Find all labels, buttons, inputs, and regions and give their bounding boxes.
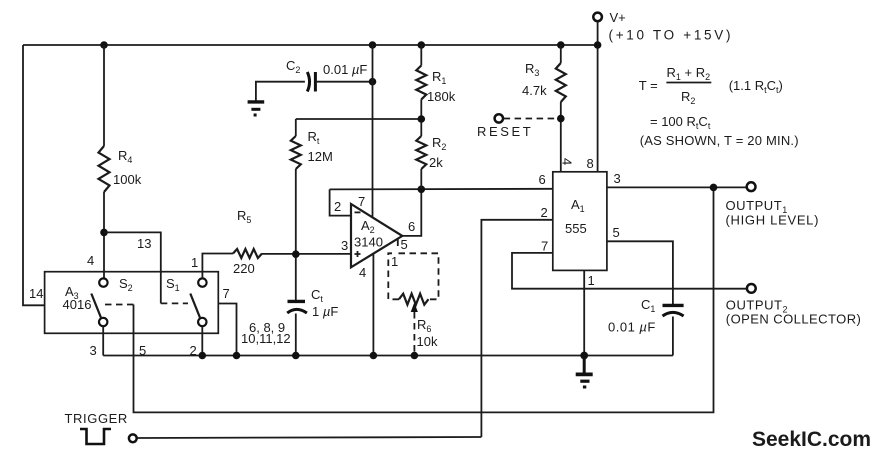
resistor R5 — [233, 249, 262, 258]
node op-amp output junction — [418, 186, 426, 194]
terminal OUTPUT2 — [747, 284, 756, 293]
svg-text:180k: 180k — [427, 89, 456, 104]
wire Rt bottom to timing node — [295, 169, 297, 301]
svg-text:2: 2 — [334, 199, 341, 214]
wire pin 13 branch — [104, 232, 161, 303]
node R3 top on rail — [557, 41, 565, 49]
wire V+ down to op-amp pin 7 — [372, 45, 374, 217]
node R4 / pin13 junction — [100, 229, 108, 237]
svg-text:5: 5 — [401, 237, 408, 252]
wire Rt top lead — [295, 119, 297, 136]
wire op-amp pin 4 to bus — [372, 253, 374, 356]
wire op-amp pin 5 stub — [397, 239, 399, 247]
wire 555 pin 1 to ground — [583, 270, 585, 355]
svg-text:220: 220 — [233, 261, 255, 276]
wire R2 bottom lead — [420, 169, 422, 189]
svg-text:0.01 µF: 0.01 µF — [323, 62, 367, 77]
plus input mark — [355, 251, 361, 257]
wire Rt top link — [296, 118, 422, 120]
wire R3 bottom to 555 pin 4 — [560, 102, 562, 172]
wire R1 bottom — [420, 99, 422, 136]
ground at C2 — [248, 102, 265, 115]
svg-text:6: 6 — [539, 172, 546, 187]
IC A1 555 body — [553, 172, 607, 271]
svg-text:8: 8 — [587, 156, 594, 171]
svg-text:(+10 TO +15V): (+10 TO +15V) — [609, 28, 734, 43]
wire threshold net to 555 pin 6 — [330, 188, 553, 191]
switch S2 — [99, 278, 107, 286]
svg-text:0.01 µF: 0.01 µF — [608, 320, 656, 335]
svg-text:4: 4 — [560, 158, 575, 165]
svg-text:4016: 4016 — [63, 297, 92, 312]
resistor R4 — [99, 146, 110, 192]
wire C1 bottom to bus — [295, 314, 297, 356]
R6 wiper arrow — [411, 303, 418, 313]
wire S2 control dashed — [105, 304, 134, 306]
svg-text:2: 2 — [541, 205, 548, 220]
node ground junction — [580, 352, 588, 360]
wire S1 top to R5 — [202, 254, 233, 279]
capacitor C1 1uF — [288, 300, 306, 303]
svg-text:2k: 2k — [429, 155, 443, 170]
wire S2 output to ground bus — [102, 326, 104, 355]
svg-text:13: 13 — [137, 236, 151, 251]
svg-text:= 100 RtCt: = 100 RtCt — [650, 114, 711, 131]
svg-text:7: 7 — [541, 239, 548, 254]
trigger pulse symbol — [80, 429, 111, 444]
node C2 junction — [369, 78, 377, 86]
wire R3 top lead — [560, 45, 562, 63]
svg-text:12M: 12M — [308, 149, 333, 164]
wire R4 top lead — [103, 45, 105, 146]
wire S1 control dashed — [161, 302, 188, 304]
wire R1 top lead — [420, 45, 422, 66]
svg-text:7: 7 — [358, 194, 365, 209]
node R6 wiper on bus — [411, 352, 419, 360]
node V+ on rail — [594, 41, 602, 49]
svg-text:14: 14 — [29, 286, 43, 301]
svg-text:(AS SHOWN, T = 20 MIN.): (AS SHOWN, T = 20 MIN.) — [640, 133, 799, 148]
svg-text:10k: 10k — [417, 334, 438, 349]
wire 555 pin 2 to trigger — [481, 220, 552, 437]
svg-text:(HIGH LEVEL): (HIGH LEVEL) — [726, 213, 820, 228]
svg-text:7: 7 — [223, 286, 230, 301]
node reset junction — [557, 115, 565, 123]
node R4 top on rail — [100, 41, 108, 49]
svg-text:4.7k: 4.7k — [522, 83, 547, 98]
svg-text:(OPEN COLLECTOR): (OPEN COLLECTOR) — [726, 312, 862, 327]
svg-text:1: 1 — [191, 255, 198, 270]
node S1 output on bus — [199, 352, 207, 360]
resistor Rt 12M — [291, 136, 301, 169]
svg-text:555: 555 — [565, 221, 587, 236]
wire V+ to 555 pin 8 — [597, 21, 599, 171]
wire S1 output to bus — [201, 326, 203, 355]
wire 555 pin 5 to C1 — [607, 241, 673, 305]
svg-text:RESET: RESET — [477, 124, 533, 139]
minus input mark — [355, 211, 361, 213]
svg-text:4: 4 — [359, 265, 366, 280]
wire left supply rail to pin 14 — [23, 45, 45, 305]
svg-text:1 µF: 1 µF — [312, 304, 338, 319]
svg-text:(1.1 RtCt): (1.1 RtCt) — [729, 78, 783, 95]
svg-text:3140: 3140 — [354, 235, 383, 250]
wire pin 7 of A3 to bus — [218, 304, 236, 356]
wire 555 pin 7 to output 2 — [512, 253, 747, 289]
terminal OUTPUT1 — [747, 182, 756, 191]
node R1/R2 junction — [418, 115, 426, 123]
wire C2 to V+ vertical — [315, 81, 372, 83]
capacitor C1 0.01uF — [663, 304, 684, 307]
svg-text:10,11,12: 10,11,12 — [241, 331, 291, 346]
switch S1 — [198, 278, 206, 286]
svg-text:5: 5 — [613, 225, 620, 240]
wire 555 pin 3 to output 1 — [607, 186, 747, 188]
terminal RESET — [495, 114, 503, 122]
svg-text:100k: 100k — [113, 172, 142, 187]
wire R5 to timing node — [262, 253, 351, 255]
wire switch control feedback — [134, 187, 714, 412]
wire reset dashed — [504, 118, 557, 120]
wire trigger to 555 pin 2 — [137, 437, 482, 438]
svg-text:4: 4 — [87, 253, 94, 268]
capacitor C2 ground leg — [256, 82, 305, 101]
terminal TRIGGER — [129, 434, 137, 442]
svg-text:SeekIC.com: SeekIC.com — [752, 428, 871, 451]
resistor R3 — [556, 63, 566, 102]
node C1 on bus — [292, 352, 300, 360]
node timing junction — [292, 250, 300, 258]
svg-text:R1 + R2: R1 + R2 — [667, 65, 711, 82]
node pin4 on bus — [370, 352, 378, 360]
svg-text:3: 3 — [341, 238, 348, 253]
svg-text:1: 1 — [391, 254, 398, 269]
potentiometer R6 body — [399, 294, 429, 305]
node pin7 on bus — [233, 352, 241, 360]
ground symbol — [576, 356, 593, 388]
resistor R1 — [416, 66, 426, 100]
wire R4 bottom lead to S2 — [103, 192, 105, 278]
svg-text:3: 3 — [614, 171, 621, 186]
svg-text:1: 1 — [588, 273, 595, 288]
IC A3 4016 body — [45, 272, 219, 334]
svg-text:3: 3 — [90, 343, 97, 358]
node output1 junction — [710, 184, 718, 192]
terminal V+ — [593, 13, 602, 22]
wire ground bus — [103, 355, 673, 357]
wire op-amp output up to threshold net — [402, 189, 421, 236]
resistor R2 — [416, 136, 426, 169]
node R1 top on rail — [418, 41, 426, 49]
wire V+ top rail — [23, 44, 598, 46]
wire op-amp pin2 jog to threshold net — [330, 189, 351, 215]
svg-text:6: 6 — [408, 219, 415, 234]
node V+ vertical on rail — [369, 41, 377, 49]
wire C1 bottom to bus — [672, 317, 674, 356]
potentiometer R6 dashed box — [388, 253, 438, 299]
capacitor C2 — [307, 72, 309, 92]
svg-text:TRIGGER: TRIGGER — [65, 411, 128, 426]
svg-text:T =: T = — [639, 78, 658, 93]
op-amp A2 3140 — [351, 204, 402, 267]
svg-text:V+: V+ — [610, 10, 626, 25]
